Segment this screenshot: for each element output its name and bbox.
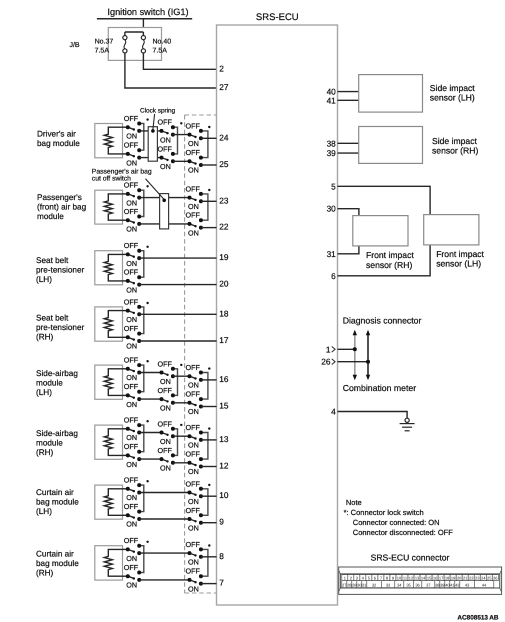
passenger's air bag module box bbox=[95, 190, 123, 224]
svg-text:ON: ON bbox=[160, 135, 171, 144]
svg-text:19: 19 bbox=[451, 576, 456, 581]
clock spring pointer bbox=[153, 114, 155, 130]
svg-text:ON: ON bbox=[126, 460, 137, 469]
svg-text:OFF: OFF bbox=[124, 476, 139, 485]
wire to pin 15 bbox=[201, 406, 217, 408]
svg-text:ON: ON bbox=[126, 554, 137, 563]
svg-text:Seat belt: Seat belt bbox=[36, 256, 69, 265]
wire pin 38 to side impact sensor RH bbox=[338, 142, 359, 144]
wire sarh bottom c1-c2 bbox=[139, 458, 161, 460]
svg-text:pre-tensioner: pre-tensioner bbox=[36, 323, 85, 332]
svg-text:OFF: OFF bbox=[186, 423, 201, 432]
wire driver top conn2-conn3 bbox=[173, 134, 190, 136]
curtain air bag module RH box bbox=[95, 546, 123, 580]
dashed harness boundary top bbox=[185, 114, 217, 116]
connector lock switch side-airbag LH conn2 bbox=[158, 359, 183, 412]
connector lock switch seat belt LH conn bbox=[124, 241, 149, 294]
svg-text:ON: ON bbox=[188, 467, 199, 476]
wire salh bottom c2-c3 bbox=[173, 402, 190, 404]
svg-text:No.40: No.40 bbox=[153, 39, 172, 46]
svg-text:43: 43 bbox=[465, 582, 470, 587]
svg-text:2: 2 bbox=[219, 63, 224, 73]
wire to pin 7 bbox=[201, 583, 217, 585]
ground symbol bbox=[400, 418, 415, 431]
wire passenger top bbox=[123, 193, 128, 195]
wire to pin 8 bbox=[201, 556, 217, 558]
svg-text:ON: ON bbox=[188, 381, 199, 390]
wire carh bottom bbox=[123, 575, 128, 577]
svg-text:OFF: OFF bbox=[124, 181, 139, 190]
svg-text:OFF: OFF bbox=[158, 359, 173, 368]
svg-text:Side-airbag: Side-airbag bbox=[36, 369, 78, 378]
connector lock switch passenger row conn2 bbox=[186, 184, 211, 237]
svg-text:16: 16 bbox=[433, 576, 438, 581]
svg-text:OFF: OFF bbox=[186, 211, 201, 220]
wire pin 41 to side impact sensor LH bbox=[338, 99, 359, 101]
svg-text:10: 10 bbox=[219, 490, 229, 500]
svg-text:Front impact: Front impact bbox=[366, 250, 414, 260]
svg-text:OFF: OFF bbox=[124, 442, 139, 451]
svg-text:AC808513 AB: AC808513 AB bbox=[457, 614, 498, 621]
wire driver bottom conn1-conn2 bbox=[139, 157, 161, 159]
svg-text:ON: ON bbox=[188, 523, 199, 532]
svg-text:OFF: OFF bbox=[124, 416, 139, 425]
svg-text:26: 26 bbox=[321, 357, 331, 367]
svg-text:OFF: OFF bbox=[124, 382, 139, 391]
svg-text:ON: ON bbox=[126, 493, 137, 502]
clock spring node bbox=[151, 129, 155, 133]
svg-text:OFF: OFF bbox=[124, 536, 139, 545]
svg-text:OFF: OFF bbox=[124, 563, 139, 572]
diagnosis connector bus arrows bbox=[353, 330, 371, 380]
svg-text:ON: ON bbox=[188, 558, 199, 567]
svg-text:(LH): (LH) bbox=[36, 275, 52, 284]
svg-text:OFF: OFF bbox=[186, 540, 201, 549]
wire pin 5 to front impact sensor LH bbox=[338, 186, 431, 214]
svg-text:Driver's air: Driver's air bbox=[37, 130, 76, 139]
wire carh bottom c1-c2 bbox=[139, 579, 189, 581]
wire passenger bottom conn1-conn2 bbox=[139, 223, 189, 225]
svg-text:26: 26 bbox=[493, 576, 498, 581]
wire to pin 19 bbox=[139, 257, 216, 259]
svg-text:ON: ON bbox=[126, 259, 137, 268]
svg-text:OFF: OFF bbox=[186, 450, 201, 459]
svg-text:Seat belt: Seat belt bbox=[36, 313, 69, 322]
svg-text:OFF: OFF bbox=[158, 386, 173, 395]
svg-text:17: 17 bbox=[439, 576, 444, 581]
svg-text:17: 17 bbox=[219, 335, 229, 345]
pin 1 terminal bbox=[332, 347, 335, 353]
wire to pin 17 bbox=[139, 340, 216, 342]
svg-text:22: 22 bbox=[219, 222, 229, 232]
svg-text:J/B: J/B bbox=[69, 41, 79, 49]
svg-text:ON: ON bbox=[188, 407, 199, 416]
wire sblh bottom bbox=[123, 280, 128, 282]
svg-text:22: 22 bbox=[469, 576, 474, 581]
svg-text:23: 23 bbox=[219, 195, 229, 205]
fuse No.37 bbox=[123, 36, 127, 54]
side impact sensor LH box bbox=[359, 75, 423, 113]
junction pin1/diagnosis bus bbox=[353, 347, 357, 351]
connector lock switch seat belt RH conn bbox=[124, 297, 149, 350]
svg-text:7.5A: 7.5A bbox=[153, 48, 168, 55]
J/B junction block box bbox=[108, 28, 161, 61]
svg-text:24: 24 bbox=[219, 132, 229, 142]
connector lock switch curtain LH conn2 bbox=[186, 479, 211, 532]
passenger's air bag cut off switch box bbox=[160, 194, 169, 229]
wire fuse No.37 to ECU pin 27 bbox=[125, 53, 217, 88]
svg-text:ON: ON bbox=[188, 166, 199, 175]
wire salh bottom c1-c2 bbox=[139, 398, 161, 400]
wire down to fuse No.40 bbox=[142, 32, 144, 36]
svg-text:18: 18 bbox=[219, 308, 229, 318]
svg-text:ON: ON bbox=[126, 581, 137, 590]
connector lock switch driver row conn1 bbox=[124, 114, 149, 167]
svg-text:Clock spring: Clock spring bbox=[140, 108, 176, 115]
side impact sensor RH box bbox=[359, 127, 423, 164]
svg-text:OFF: OFF bbox=[186, 363, 201, 372]
wire carh top bbox=[123, 548, 128, 550]
svg-text:32: 32 bbox=[372, 582, 377, 587]
svg-text:(RH): (RH) bbox=[36, 448, 54, 457]
wire passenger bottom bbox=[123, 219, 128, 221]
svg-text:23: 23 bbox=[475, 576, 480, 581]
svg-text:27: 27 bbox=[219, 82, 229, 92]
junction node at fuse feed bbox=[141, 30, 146, 35]
svg-text:8: 8 bbox=[219, 551, 224, 561]
wire to pin 24 bbox=[201, 137, 217, 139]
wire pin 6 to front impact sensor LH bbox=[338, 245, 431, 276]
svg-text:ON: ON bbox=[188, 228, 199, 237]
connector lock switch driver row conn2 bbox=[158, 118, 183, 171]
seat belt pre-tensioner LH squib resistor bbox=[104, 254, 122, 281]
wire sbrh bottom bbox=[123, 336, 128, 338]
wire to fuse No.37 bbox=[125, 31, 143, 33]
svg-text:pre-tensioner: pre-tensioner bbox=[36, 266, 85, 275]
wire to pin 18 bbox=[139, 313, 216, 315]
svg-text:6: 6 bbox=[331, 271, 336, 281]
svg-text:Passenger's air bag: Passenger's air bag bbox=[92, 168, 152, 175]
fuse No.40 bbox=[141, 36, 145, 54]
svg-text:OFF: OFF bbox=[186, 184, 201, 193]
wire pin 4 to ground bbox=[338, 412, 408, 419]
svg-text:sensor (RH): sensor (RH) bbox=[366, 260, 412, 270]
svg-text:ON: ON bbox=[126, 400, 137, 409]
connector lock switch passenger row conn1 bbox=[124, 181, 149, 234]
wire calh bottom bbox=[123, 514, 128, 516]
svg-text:OFF: OFF bbox=[124, 356, 139, 365]
svg-text:ON: ON bbox=[126, 342, 137, 351]
svg-text:9: 9 bbox=[219, 517, 224, 527]
svg-text:(front) air bag: (front) air bag bbox=[37, 203, 87, 212]
svg-text:20: 20 bbox=[219, 279, 229, 289]
wire to pin 16 bbox=[201, 379, 217, 381]
wire ignition to J/B bbox=[142, 19, 144, 32]
svg-text:(LH): (LH) bbox=[36, 388, 52, 397]
svg-text:44: 44 bbox=[482, 582, 487, 587]
svg-text:OFF: OFF bbox=[186, 121, 201, 130]
svg-text:ON: ON bbox=[126, 285, 137, 294]
svg-text:5: 5 bbox=[331, 181, 336, 191]
wire to pin 22 bbox=[201, 227, 217, 229]
svg-text:ON: ON bbox=[160, 437, 171, 446]
wire sarh top bbox=[123, 428, 128, 430]
svg-text:25: 25 bbox=[487, 576, 492, 581]
side-airbag module RH squib resistor bbox=[104, 429, 122, 456]
connector lock switch driver row conn3 bbox=[186, 121, 211, 174]
wire to pin 13 bbox=[201, 439, 217, 441]
svg-text:15: 15 bbox=[427, 576, 432, 581]
wire calh top bbox=[123, 488, 128, 490]
curtain air bag module RH squib resistor bbox=[104, 549, 122, 576]
svg-text:25: 25 bbox=[219, 159, 229, 169]
seat belt pre-tensioner RH squib resistor bbox=[104, 311, 122, 338]
svg-text:OFF: OFF bbox=[158, 118, 173, 127]
svg-text:ON: ON bbox=[126, 373, 137, 382]
connector lock switch curtain RH conn1 bbox=[124, 536, 149, 589]
svg-text:OFF: OFF bbox=[124, 502, 139, 511]
svg-text:OFF: OFF bbox=[186, 567, 201, 576]
svg-text:OFF: OFF bbox=[158, 419, 173, 428]
wire to pin 25 bbox=[201, 164, 217, 166]
svg-text:Ignition switch (IG1): Ignition switch (IG1) bbox=[107, 7, 188, 17]
svg-text:12: 12 bbox=[409, 576, 414, 581]
wire sblh top bbox=[123, 253, 128, 255]
svg-text:ON: ON bbox=[126, 520, 137, 529]
wire fuse No.40 to ECU pin 2 bbox=[143, 53, 216, 70]
svg-text:35: 35 bbox=[406, 582, 411, 587]
driver's air bag module squib resistor bbox=[104, 127, 122, 154]
wire calh bottom c1-c2 bbox=[139, 518, 189, 520]
svg-text:4: 4 bbox=[331, 407, 336, 417]
svg-text:36: 36 bbox=[415, 582, 420, 587]
svg-text:ON: ON bbox=[188, 441, 199, 450]
svg-text:(RH): (RH) bbox=[36, 332, 54, 341]
svg-text:OFF: OFF bbox=[124, 241, 139, 250]
wire salh top c1-c2 bbox=[139, 372, 161, 374]
svg-text:ON: ON bbox=[126, 198, 137, 207]
svg-text:Connector disconnected: OFF: Connector disconnected: OFF bbox=[353, 528, 453, 537]
connector lock switch side-airbag LH conn1 bbox=[124, 356, 149, 409]
cut off switch pointer node bbox=[162, 199, 166, 203]
svg-text:ON: ON bbox=[160, 377, 171, 386]
svg-text:ON: ON bbox=[188, 139, 199, 148]
svg-text:Note: Note bbox=[346, 498, 362, 507]
wire carh top c1-c2 bbox=[139, 552, 189, 554]
svg-text:20: 20 bbox=[457, 576, 462, 581]
svg-text:(LH): (LH) bbox=[36, 507, 52, 516]
curtain air bag module LH squib resistor bbox=[104, 489, 122, 516]
svg-text:Front impact: Front impact bbox=[436, 249, 484, 259]
seat belt pre-tensioner LH box bbox=[95, 251, 123, 285]
svg-text:24: 24 bbox=[481, 576, 486, 581]
svg-text:OFF: OFF bbox=[186, 479, 201, 488]
wire pin 26 to combination meter bus bbox=[338, 361, 369, 363]
wire pin 40 to side impact sensor LH bbox=[338, 91, 359, 93]
wire to pin 23 bbox=[201, 200, 217, 202]
svg-text:sensor (RH): sensor (RH) bbox=[432, 146, 478, 156]
svg-text:ON: ON bbox=[160, 162, 171, 171]
svg-text:sensor (LH): sensor (LH) bbox=[430, 93, 475, 103]
svg-text:module: module bbox=[36, 439, 63, 448]
svg-text:module: module bbox=[37, 212, 64, 221]
svg-text:bag module: bag module bbox=[37, 139, 80, 148]
wire driver top to conn bbox=[123, 126, 128, 128]
svg-text:ON: ON bbox=[188, 202, 199, 211]
wire driver bottom to conn bbox=[123, 153, 128, 155]
wire sarh bottom c2-c3 bbox=[173, 462, 190, 464]
wire salh top bbox=[123, 368, 128, 370]
wire pin 31 to front impact sensor RH bbox=[338, 246, 359, 254]
svg-text:37: 37 bbox=[426, 582, 431, 587]
svg-text:Curtain air: Curtain air bbox=[36, 488, 74, 497]
svg-text:7: 7 bbox=[219, 578, 224, 588]
svg-text:19: 19 bbox=[219, 252, 229, 262]
wire down to fuse No.37 bbox=[124, 32, 126, 36]
dashed harness boundary bottom bbox=[185, 592, 217, 594]
svg-text:OFF: OFF bbox=[158, 144, 173, 153]
svg-text:bag module: bag module bbox=[36, 498, 79, 507]
connector lock switch side-airbag LH conn3 bbox=[186, 363, 211, 416]
svg-text:39: 39 bbox=[327, 148, 337, 158]
svg-text:14: 14 bbox=[421, 576, 426, 581]
connector lock switch curtain RH conn2 bbox=[186, 540, 211, 593]
svg-text:OFF: OFF bbox=[124, 297, 139, 306]
seat belt pre-tensioner RH box bbox=[95, 307, 123, 341]
svg-text:*: Connector lock switch: *: Connector lock switch bbox=[344, 508, 424, 517]
svg-text:Passenger's: Passenger's bbox=[37, 193, 82, 202]
svg-text:sensor (LH): sensor (LH) bbox=[436, 259, 481, 269]
svg-text:OFF: OFF bbox=[124, 324, 139, 333]
wire sarh top c2-c3 bbox=[173, 435, 190, 437]
side-airbag module RH box bbox=[95, 425, 123, 459]
SRS-ECU connector pinout table bbox=[339, 567, 502, 594]
svg-text:33: 33 bbox=[386, 582, 391, 587]
wire to pin 10 bbox=[201, 495, 217, 497]
svg-text:21: 21 bbox=[463, 576, 468, 581]
connector lock switch side-airbag RH conn2 bbox=[158, 419, 183, 472]
svg-text:1: 1 bbox=[326, 344, 331, 354]
svg-text:bag module: bag module bbox=[36, 559, 79, 568]
svg-text:Connector connected: ON: Connector connected: ON bbox=[353, 518, 440, 527]
svg-text:13: 13 bbox=[415, 576, 420, 581]
svg-text:ON: ON bbox=[188, 497, 199, 506]
svg-text:7.5A: 7.5A bbox=[95, 48, 110, 55]
dashed harness boundary vertical bbox=[184, 115, 186, 593]
wire pin 1 to diagnosis connector bbox=[338, 348, 355, 350]
wire pin 30 to front impact sensor RH bbox=[338, 209, 359, 216]
clock spring box bbox=[148, 127, 157, 162]
svg-text:ON: ON bbox=[126, 433, 137, 442]
wire to pin 12 bbox=[201, 466, 217, 468]
wire sbrh top bbox=[123, 310, 128, 312]
svg-text:OFF: OFF bbox=[124, 268, 139, 277]
svg-text:38: 38 bbox=[327, 138, 337, 148]
pin 26 terminal bbox=[332, 359, 335, 365]
cut off switch pointer bbox=[146, 179, 164, 199]
svg-text:16: 16 bbox=[219, 374, 229, 384]
svg-text:No.37: No.37 bbox=[95, 39, 114, 46]
svg-text:OFF: OFF bbox=[186, 148, 201, 157]
svg-text:ON: ON bbox=[188, 584, 199, 593]
svg-text:SRS-ECU connector: SRS-ECU connector bbox=[371, 553, 450, 563]
svg-text:Side-airbag: Side-airbag bbox=[36, 429, 78, 438]
wire calh top c1-c2 bbox=[139, 492, 189, 494]
front impact sensor RH box bbox=[353, 216, 408, 246]
svg-text:18: 18 bbox=[445, 576, 450, 581]
connector lock switch side-airbag RH conn1 bbox=[124, 416, 149, 469]
svg-text:SRS-ECU: SRS-ECU bbox=[256, 12, 299, 23]
ignition switch bus line bbox=[97, 18, 192, 20]
svg-text:OFF: OFF bbox=[186, 390, 201, 399]
svg-text:OFF: OFF bbox=[124, 114, 139, 123]
svg-text:ON: ON bbox=[160, 464, 171, 473]
wire passenger top conn1-conn2 bbox=[139, 197, 189, 199]
front impact sensor LH box bbox=[424, 215, 479, 245]
svg-text:Curtain air: Curtain air bbox=[36, 550, 74, 559]
svg-text:Side impact: Side impact bbox=[430, 83, 476, 93]
svg-text:ON: ON bbox=[160, 404, 171, 413]
SRS-ECU box bbox=[217, 25, 338, 605]
svg-text:Side impact: Side impact bbox=[432, 136, 478, 146]
svg-text:Diagnosis connector: Diagnosis connector bbox=[343, 316, 422, 326]
svg-text:(RH): (RH) bbox=[36, 569, 54, 578]
wire salh bottom bbox=[123, 394, 128, 396]
wire pin 39 to side impact sensor RH bbox=[338, 152, 359, 154]
svg-text:module: module bbox=[36, 379, 63, 388]
svg-text:30: 30 bbox=[327, 204, 337, 214]
driver's air bag module box bbox=[95, 124, 123, 158]
svg-text:Combination meter: Combination meter bbox=[343, 383, 417, 393]
svg-text:OFF: OFF bbox=[124, 141, 139, 150]
connector lock switch curtain LH conn1 bbox=[124, 476, 149, 529]
wire to pin 9 bbox=[201, 522, 217, 524]
svg-text:ON: ON bbox=[126, 132, 137, 141]
svg-text:ON: ON bbox=[126, 158, 137, 167]
wire salh top c2-c3 bbox=[173, 375, 190, 377]
side-airbag module LH box bbox=[95, 365, 123, 399]
connector lock switch side-airbag RH conn3 bbox=[186, 423, 211, 476]
wire driver bottom conn2-conn3 bbox=[173, 160, 190, 162]
svg-text:15: 15 bbox=[219, 401, 229, 411]
wire driver top conn1-conn2 bbox=[139, 130, 161, 132]
svg-text:31: 31 bbox=[327, 249, 337, 259]
svg-text:ON: ON bbox=[126, 225, 137, 234]
svg-text:12: 12 bbox=[219, 461, 229, 471]
svg-text:OFF: OFF bbox=[186, 506, 201, 515]
svg-text:10: 10 bbox=[397, 576, 402, 581]
wire sarh top c1-c2 bbox=[139, 432, 161, 434]
svg-text:34: 34 bbox=[397, 582, 402, 587]
wire sarh bottom bbox=[123, 454, 128, 456]
svg-text:OFF: OFF bbox=[158, 446, 173, 455]
curtain air bag module LH box bbox=[95, 485, 123, 519]
svg-text:OFF: OFF bbox=[124, 207, 139, 216]
svg-text:ON: ON bbox=[126, 315, 137, 324]
svg-text:41: 41 bbox=[327, 95, 337, 105]
junction pin26/meter bus bbox=[366, 360, 370, 364]
wire to pin 20 bbox=[139, 284, 216, 286]
side-airbag module LH squib resistor bbox=[104, 369, 122, 396]
svg-text:13: 13 bbox=[219, 434, 229, 444]
passenger's air bag module squib resistor bbox=[104, 194, 122, 220]
